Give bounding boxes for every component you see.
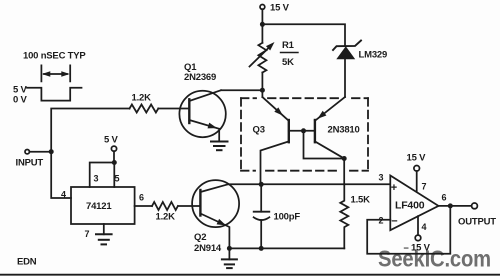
node rail/cap junction [259, 182, 264, 187]
svg-text:6: 6 [139, 193, 144, 203]
wire feedback loop [367, 206, 450, 254]
wire input vertical up to 1.2K [51, 109, 129, 152]
svg-text:5K: 5K [282, 57, 294, 68]
transistor Q1 2N2369 [179, 62, 225, 137]
wire R1 to node A [261, 73, 263, 91]
node 5V junction [112, 160, 117, 165]
node cap bottom junction [259, 246, 264, 251]
dashed box (matched pair) [241, 98, 368, 171]
ground (Q2 emitter) [222, 248, 237, 268]
tick marks [41, 65, 70, 81]
svg-text:6: 6 [442, 193, 447, 203]
node collector 2N3810 junction [342, 156, 347, 161]
svg-text:−: − [391, 216, 397, 228]
svg-text:5 V: 5 V [104, 135, 119, 146]
node 15V junction [260, 22, 265, 27]
svg-text:4: 4 [61, 190, 66, 200]
node input junction [49, 149, 54, 154]
wire pin 6 to 1.2K [135, 205, 152, 207]
emitter Q3 [262, 97, 288, 121]
emitter 2N3810 [315, 97, 345, 121]
svg-text:7: 7 [85, 229, 90, 239]
svg-text:SeekIC.com: SeekIC.com [378, 246, 491, 272]
wire junction to zener branch [262, 24, 345, 46]
15V supply (top) [260, 3, 290, 14]
transistor 2N3810 (right of pair) [315, 97, 360, 159]
collector Q3 [261, 141, 289, 184]
svg-text:3: 3 [379, 173, 384, 183]
svg-text:EDN: EDN [17, 257, 37, 268]
svg-text:5: 5 [115, 174, 120, 184]
INPUT terminal [16, 150, 44, 169]
transistor Q2 2N914 [192, 180, 239, 254]
resistor 1.2K (top) [130, 93, 159, 113]
resistor 1.5K [340, 184, 370, 248]
resistor 1.2K (bottom) [152, 202, 178, 223]
OUTPUT terminal [458, 203, 496, 228]
capacitor 100pF [254, 184, 301, 248]
emitter [200, 214, 229, 249]
wire ramp rail (Q2 collector to op-amp pin 3) [228, 183, 390, 185]
wire junction to R1 [261, 24, 263, 43]
transistor Q3 (left of pair) [253, 97, 289, 184]
ground (Q1 emitter) [211, 129, 228, 150]
emitter [189, 120, 219, 129]
wire 1.2K to Q2 base [178, 205, 200, 207]
pulse annotation 100 nSEC TYP [13, 51, 86, 106]
wire node A into dashed box [261, 90, 263, 97]
wire INPUT to junction [30, 151, 51, 153]
wire input vertical down to pin 4 [51, 152, 71, 198]
node base junction [301, 128, 306, 133]
svg-text:INPUT: INPUT [16, 158, 44, 169]
node output junction [448, 203, 453, 208]
svg-text:2N914: 2N914 [194, 243, 222, 254]
ground (74121 pin 7) [96, 234, 112, 244]
wire base link [289, 130, 315, 132]
svg-text:7: 7 [422, 182, 427, 192]
svg-text:100pF: 100pF [274, 212, 301, 223]
wire 5V to pins 3,5 [90, 151, 115, 187]
wire base-to-collector (diode connection) [304, 131, 345, 159]
node Q2 emitter junction [227, 246, 232, 251]
IC U1 74121 [61, 174, 144, 240]
svg-text:100 nSEC TYP: 100 nSEC TYP [23, 51, 86, 62]
svg-text:Q2: Q2 [194, 232, 206, 243]
svg-text:LF400: LF400 [395, 200, 425, 212]
svg-text:2N2369: 2N2369 [184, 72, 216, 83]
resistor R1 5K (variable) [250, 40, 299, 73]
svg-text:R1: R1 [282, 40, 295, 51]
svg-text:LM329: LM329 [359, 50, 388, 61]
collector 2N3810 [315, 141, 344, 158]
op-amp U2 LF400 [379, 173, 447, 233]
wire ground rail [229, 247, 344, 249]
wire 1.2K to Q1 base [158, 108, 189, 110]
svg-text:1.5K: 1.5K [351, 195, 371, 206]
15V supply (op-amp pin 7) [407, 153, 427, 192]
double arrow [44, 73, 67, 75]
svg-text:OUTPUT: OUTPUT [458, 217, 496, 228]
svg-text:1.2K: 1.2K [132, 93, 152, 104]
svg-text:2N3810: 2N3810 [328, 125, 360, 136]
wire collector down to rail [343, 159, 345, 185]
collector [200, 184, 228, 192]
svg-text:1.2K: 1.2K [156, 212, 176, 223]
node A (R1 / Q1 collector / Q3 emitter) [260, 88, 265, 93]
svg-text:15 V: 15 V [407, 153, 427, 164]
svg-text:Q3: Q3 [253, 125, 265, 136]
wire 15V down to junction [261, 9, 263, 24]
svg-text:+: + [391, 182, 397, 194]
svg-text:0 V: 0 V [13, 95, 28, 106]
svg-text:74121: 74121 [86, 201, 112, 212]
wire Q1 collector to node A [221, 89, 262, 91]
svg-text:15 V: 15 V [270, 3, 290, 14]
svg-text:3: 3 [94, 174, 99, 184]
svg-text:4: 4 [422, 222, 427, 232]
pulse waveform [27, 88, 82, 101]
wire pin7 to ground [103, 224, 105, 234]
wire output [439, 205, 472, 207]
collector [189, 90, 221, 101]
-15V supply (op-amp pin 4) [404, 216, 431, 253]
5V supply for 74121 [104, 135, 119, 152]
svg-text:– 15 V: – 15 V [404, 243, 431, 254]
zener diode LM329 [333, 41, 387, 98]
